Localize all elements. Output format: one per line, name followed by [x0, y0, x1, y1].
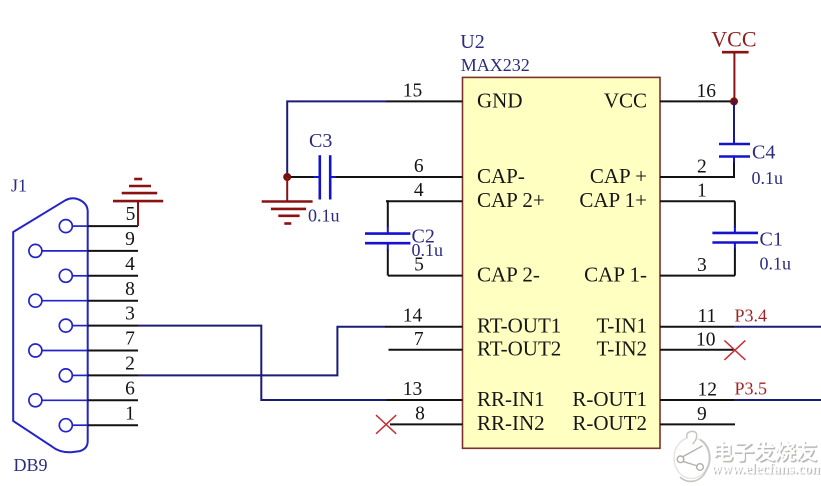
capacitor C2 value 0.1u — [412, 240, 444, 260]
pin 16 stub — [660, 100, 734, 102]
capacitor C4 label — [752, 141, 775, 163]
svg-text:RT-OUT1: RT-OUT1 — [477, 314, 561, 338]
svg-text:8: 8 — [415, 403, 425, 424]
connector DB9 label — [14, 455, 48, 475]
pin number 3 — [697, 255, 707, 276]
svg-text:1: 1 — [125, 403, 135, 424]
pin number 13 — [403, 379, 423, 400]
junction dot VCC / pin16 / C4 — [730, 97, 738, 105]
ic U2 pin name RT-OUT1 (pin 14) — [477, 314, 561, 338]
no-connect X on RR-IN2 pin 8 — [376, 415, 396, 434]
svg-text:RR-IN2: RR-IN2 — [477, 411, 545, 435]
ic U2 pin name T-IN1 (pin 11) — [596, 314, 647, 338]
ic U2 pin name CAP 1+ (pin 1) — [579, 188, 647, 212]
svg-text:2: 2 — [697, 157, 707, 178]
wire DB9 pin 5 stub — [88, 225, 138, 227]
wire net T-IN1 to P3.4 — [734, 326, 821, 328]
ic U2 pin name R-OUT2 (pin 9) — [572, 411, 647, 435]
svg-text:C3: C3 — [309, 130, 332, 152]
connector J1 pad number 7 — [125, 329, 135, 350]
svg-text:6: 6 — [414, 156, 424, 177]
ic U2 pin name CAP- (pin 6) — [477, 164, 525, 188]
net label P3.5 — [735, 378, 768, 398]
pin 13 stub — [386, 399, 463, 401]
ic U2 part value MAX232 — [461, 55, 530, 75]
pin number 7 — [414, 329, 424, 350]
ic U2 pin name CAP 2- (pin 5) — [477, 263, 540, 287]
svg-text:RR-IN1: RR-IN1 — [477, 387, 545, 411]
connector J1 pad number 6 — [125, 378, 135, 399]
wire net R-OUT1 to P3.5 — [734, 399, 821, 401]
svg-text:T-IN2: T-IN2 — [596, 337, 647, 361]
svg-text:CAP +: CAP + — [590, 164, 647, 188]
connector J1 pin 3 circle and lead — [59, 319, 87, 332]
svg-text:C4: C4 — [752, 141, 775, 163]
connector J1 pad number 3 — [125, 304, 135, 325]
pin number 12 — [698, 380, 718, 401]
capacitor C3 plates — [314, 155, 337, 199]
connector J1 pin 8 circle and lead — [29, 294, 88, 307]
power VCC symbol — [722, 52, 749, 101]
pin number 8 — [415, 403, 425, 424]
connector J1 pin 6 circle and lead — [29, 394, 88, 407]
pin 3 stub — [660, 275, 735, 277]
svg-text:0.1u: 0.1u — [412, 240, 444, 260]
svg-text:8: 8 — [125, 279, 135, 300]
wire DB9 pin 2 stub — [88, 374, 138, 376]
pin 10 stub — [660, 349, 734, 351]
capacitor C4 value 0.1u — [752, 168, 784, 188]
pin 15 stub — [386, 100, 463, 102]
svg-text:MAX232: MAX232 — [461, 55, 530, 75]
svg-text:CAP 2-: CAP 2- — [477, 263, 540, 287]
wire DB9 pin 7 stub — [88, 350, 138, 352]
pin number 1 — [697, 181, 707, 202]
svg-text:U2: U2 — [460, 31, 484, 53]
pin 5 stub — [388, 275, 463, 277]
svg-text:4: 4 — [125, 254, 135, 275]
svg-text:J1: J1 — [11, 175, 27, 195]
ic U2 pin name RT-OUT2 (pin 7) — [477, 337, 561, 361]
wire DB9 pin 3 stub — [88, 325, 138, 327]
svg-text:10: 10 — [696, 329, 716, 350]
ic U2 pin name T-IN2 (pin 10) — [596, 337, 647, 361]
ic U2 pin name CAP + (pin 2) — [590, 164, 647, 188]
svg-text:CAP 1+: CAP 1+ — [579, 188, 647, 212]
capacitor C2 plates — [365, 227, 410, 250]
capacitor C1 label — [760, 229, 783, 251]
svg-text:3: 3 — [125, 304, 135, 325]
svg-text:RT-OUT2: RT-OUT2 — [477, 337, 561, 361]
connector J1 pin 9 circle and lead — [29, 244, 88, 257]
watermark text www.elecfans.com — [711, 462, 821, 478]
svg-text:CAP 1-: CAP 1- — [584, 263, 647, 287]
svg-text:www.elecfans.com: www.elecfans.com — [711, 462, 821, 478]
svg-text:VCC: VCC — [711, 27, 756, 52]
svg-text:CAP 2+: CAP 2+ — [477, 188, 545, 212]
pin 12 stub — [660, 399, 734, 401]
svg-text:电子发烧友: 电子发烧友 — [712, 440, 817, 464]
pin number 14 — [403, 306, 423, 327]
pin number 9 — [697, 404, 707, 425]
connector J1 pin 1 circle and lead — [59, 419, 87, 432]
ic U2 pin name RR-IN1 (pin 13) — [477, 387, 545, 411]
wire C1 bottom to pin3 — [734, 248, 736, 276]
wire net DB9 pin3 to RR-IN1 (crossover) — [138, 326, 387, 400]
connector J1 pad number 2 — [125, 354, 135, 375]
connector J1 pad number 1 — [125, 403, 135, 424]
ic U2 pin name GND (pin 15) — [477, 88, 523, 112]
pin 11 stub — [660, 326, 734, 328]
wire C2 bottom to pin5 — [387, 249, 389, 276]
svg-text:13: 13 — [403, 379, 423, 400]
pin number 10 — [696, 329, 716, 350]
pin number 16 — [697, 81, 717, 102]
pin 1 stub — [660, 200, 735, 202]
svg-text:2: 2 — [125, 354, 135, 375]
connector J1 label — [11, 175, 27, 195]
watermark text 电子发烧友 — [712, 440, 817, 464]
wire DB9 pin 4 stub — [88, 275, 138, 277]
ic U2 reference designator U2 — [460, 31, 484, 53]
capacitor C1 plates — [712, 226, 758, 249]
no-connect X on T-IN2 pin 10 — [724, 340, 745, 360]
svg-text:6: 6 — [125, 378, 135, 399]
ic U2 MAX232 body — [463, 77, 661, 448]
net label P3.4 — [735, 305, 768, 325]
power VCC label — [711, 27, 756, 52]
pin number 15 — [403, 80, 423, 101]
pin 8 stub — [390, 423, 463, 425]
wire C4 bottom to pin2 — [733, 163, 735, 178]
svg-text:0.1u: 0.1u — [308, 206, 340, 226]
ic U2 pin name RR-IN2 (pin 8) — [477, 411, 545, 435]
wire pin1 to C1 top — [734, 201, 736, 228]
wire DB9 pin 9 stub — [88, 250, 138, 252]
svg-text:DB9: DB9 — [14, 455, 48, 475]
svg-text:15: 15 — [403, 80, 423, 101]
ic U2 pin name CAP 2+ (pin 4) — [477, 188, 545, 212]
svg-text:VCC: VCC — [604, 88, 647, 112]
pin 14 stub — [385, 326, 463, 328]
pin number 5 — [414, 255, 424, 276]
wire net pin15 to junction — [287, 101, 386, 177]
pin number 6 — [414, 156, 424, 177]
svg-text:P3.4: P3.4 — [735, 305, 768, 325]
ic U2 pin name CAP 1- (pin 3) — [584, 263, 647, 287]
connector J1 pin 5 circle and lead — [59, 220, 87, 233]
junction dot at C3 / ground node — [283, 173, 291, 181]
svg-text:CAP-: CAP- — [477, 164, 525, 188]
svg-text:R-OUT2: R-OUT2 — [572, 411, 647, 435]
svg-text:9: 9 — [697, 404, 707, 425]
svg-text:7: 7 — [414, 329, 424, 350]
pin number 4 — [414, 180, 424, 201]
svg-text:5: 5 — [126, 204, 136, 225]
pin number 11 — [698, 306, 717, 327]
svg-text:GND: GND — [477, 88, 523, 112]
wire DB9 pin 8 stub — [88, 300, 138, 302]
capacitor C3 value 0.1u — [308, 206, 340, 226]
wire DB9 pin 6 stub — [88, 399, 138, 401]
svg-text:7: 7 — [125, 329, 135, 350]
ic U2 pin name R-OUT1 (pin 12) — [572, 387, 647, 411]
pin 2 stub — [660, 176, 735, 178]
pin 6 stub — [386, 176, 463, 178]
svg-text:0.1u: 0.1u — [760, 254, 792, 274]
connector J1 pad number 5 — [126, 204, 136, 225]
watermark elecfans logo — [674, 431, 710, 481]
capacitor C4 plates — [719, 138, 750, 164]
ic U2 pin name VCC (pin 16) — [604, 88, 647, 112]
svg-text:T-IN1: T-IN1 — [596, 314, 647, 338]
connector J1 pad number 9 — [125, 229, 135, 250]
ground GND2 earth symbol below junction — [262, 177, 313, 224]
svg-text:14: 14 — [403, 306, 423, 327]
connector J1 pad number 8 — [125, 279, 135, 300]
pin number 2 — [697, 157, 707, 178]
svg-text:1: 1 — [697, 181, 707, 202]
svg-text:3: 3 — [697, 255, 707, 276]
wire DB9 pin 1 stub — [88, 424, 138, 426]
svg-text:R-OUT1: R-OUT1 — [572, 387, 647, 411]
wire pin4 to C2 top — [387, 201, 388, 227]
svg-text:0.1u: 0.1u — [752, 168, 784, 188]
capacitor C3 label — [309, 130, 332, 152]
connector J1 pad number 4 — [125, 254, 135, 275]
svg-text:12: 12 — [698, 380, 718, 401]
wire junction to C3 left plate — [287, 176, 314, 178]
pin 7 stub — [389, 349, 463, 351]
wire C3 right plate to pin 6 stub — [336, 176, 387, 178]
capacitor C2 label — [412, 226, 435, 248]
svg-text:11: 11 — [698, 306, 717, 327]
svg-text:P3.5: P3.5 — [735, 378, 768, 398]
pin 4 stub — [386, 200, 463, 202]
svg-text:9: 9 — [125, 229, 135, 250]
connector J1 pin 2 circle and lead — [59, 369, 87, 382]
svg-text:C1: C1 — [760, 229, 783, 251]
capacitor C1 value 0.1u — [760, 254, 792, 274]
svg-text:16: 16 — [697, 81, 717, 102]
wire net DB9 pin2 to RT-OUT1 (crossover) — [138, 327, 386, 376]
pin 9 stub — [660, 423, 735, 425]
ground GND1 rotated earth symbol above DB9 pin 5 — [113, 179, 163, 226]
connector J1 pin 7 circle and lead — [29, 344, 88, 357]
wire junction to C4 top — [733, 101, 735, 138]
connector J1 DB9 outline — [13, 198, 88, 452]
connector J1 pin 4 circle and lead — [59, 269, 87, 282]
svg-text:4: 4 — [414, 180, 424, 201]
